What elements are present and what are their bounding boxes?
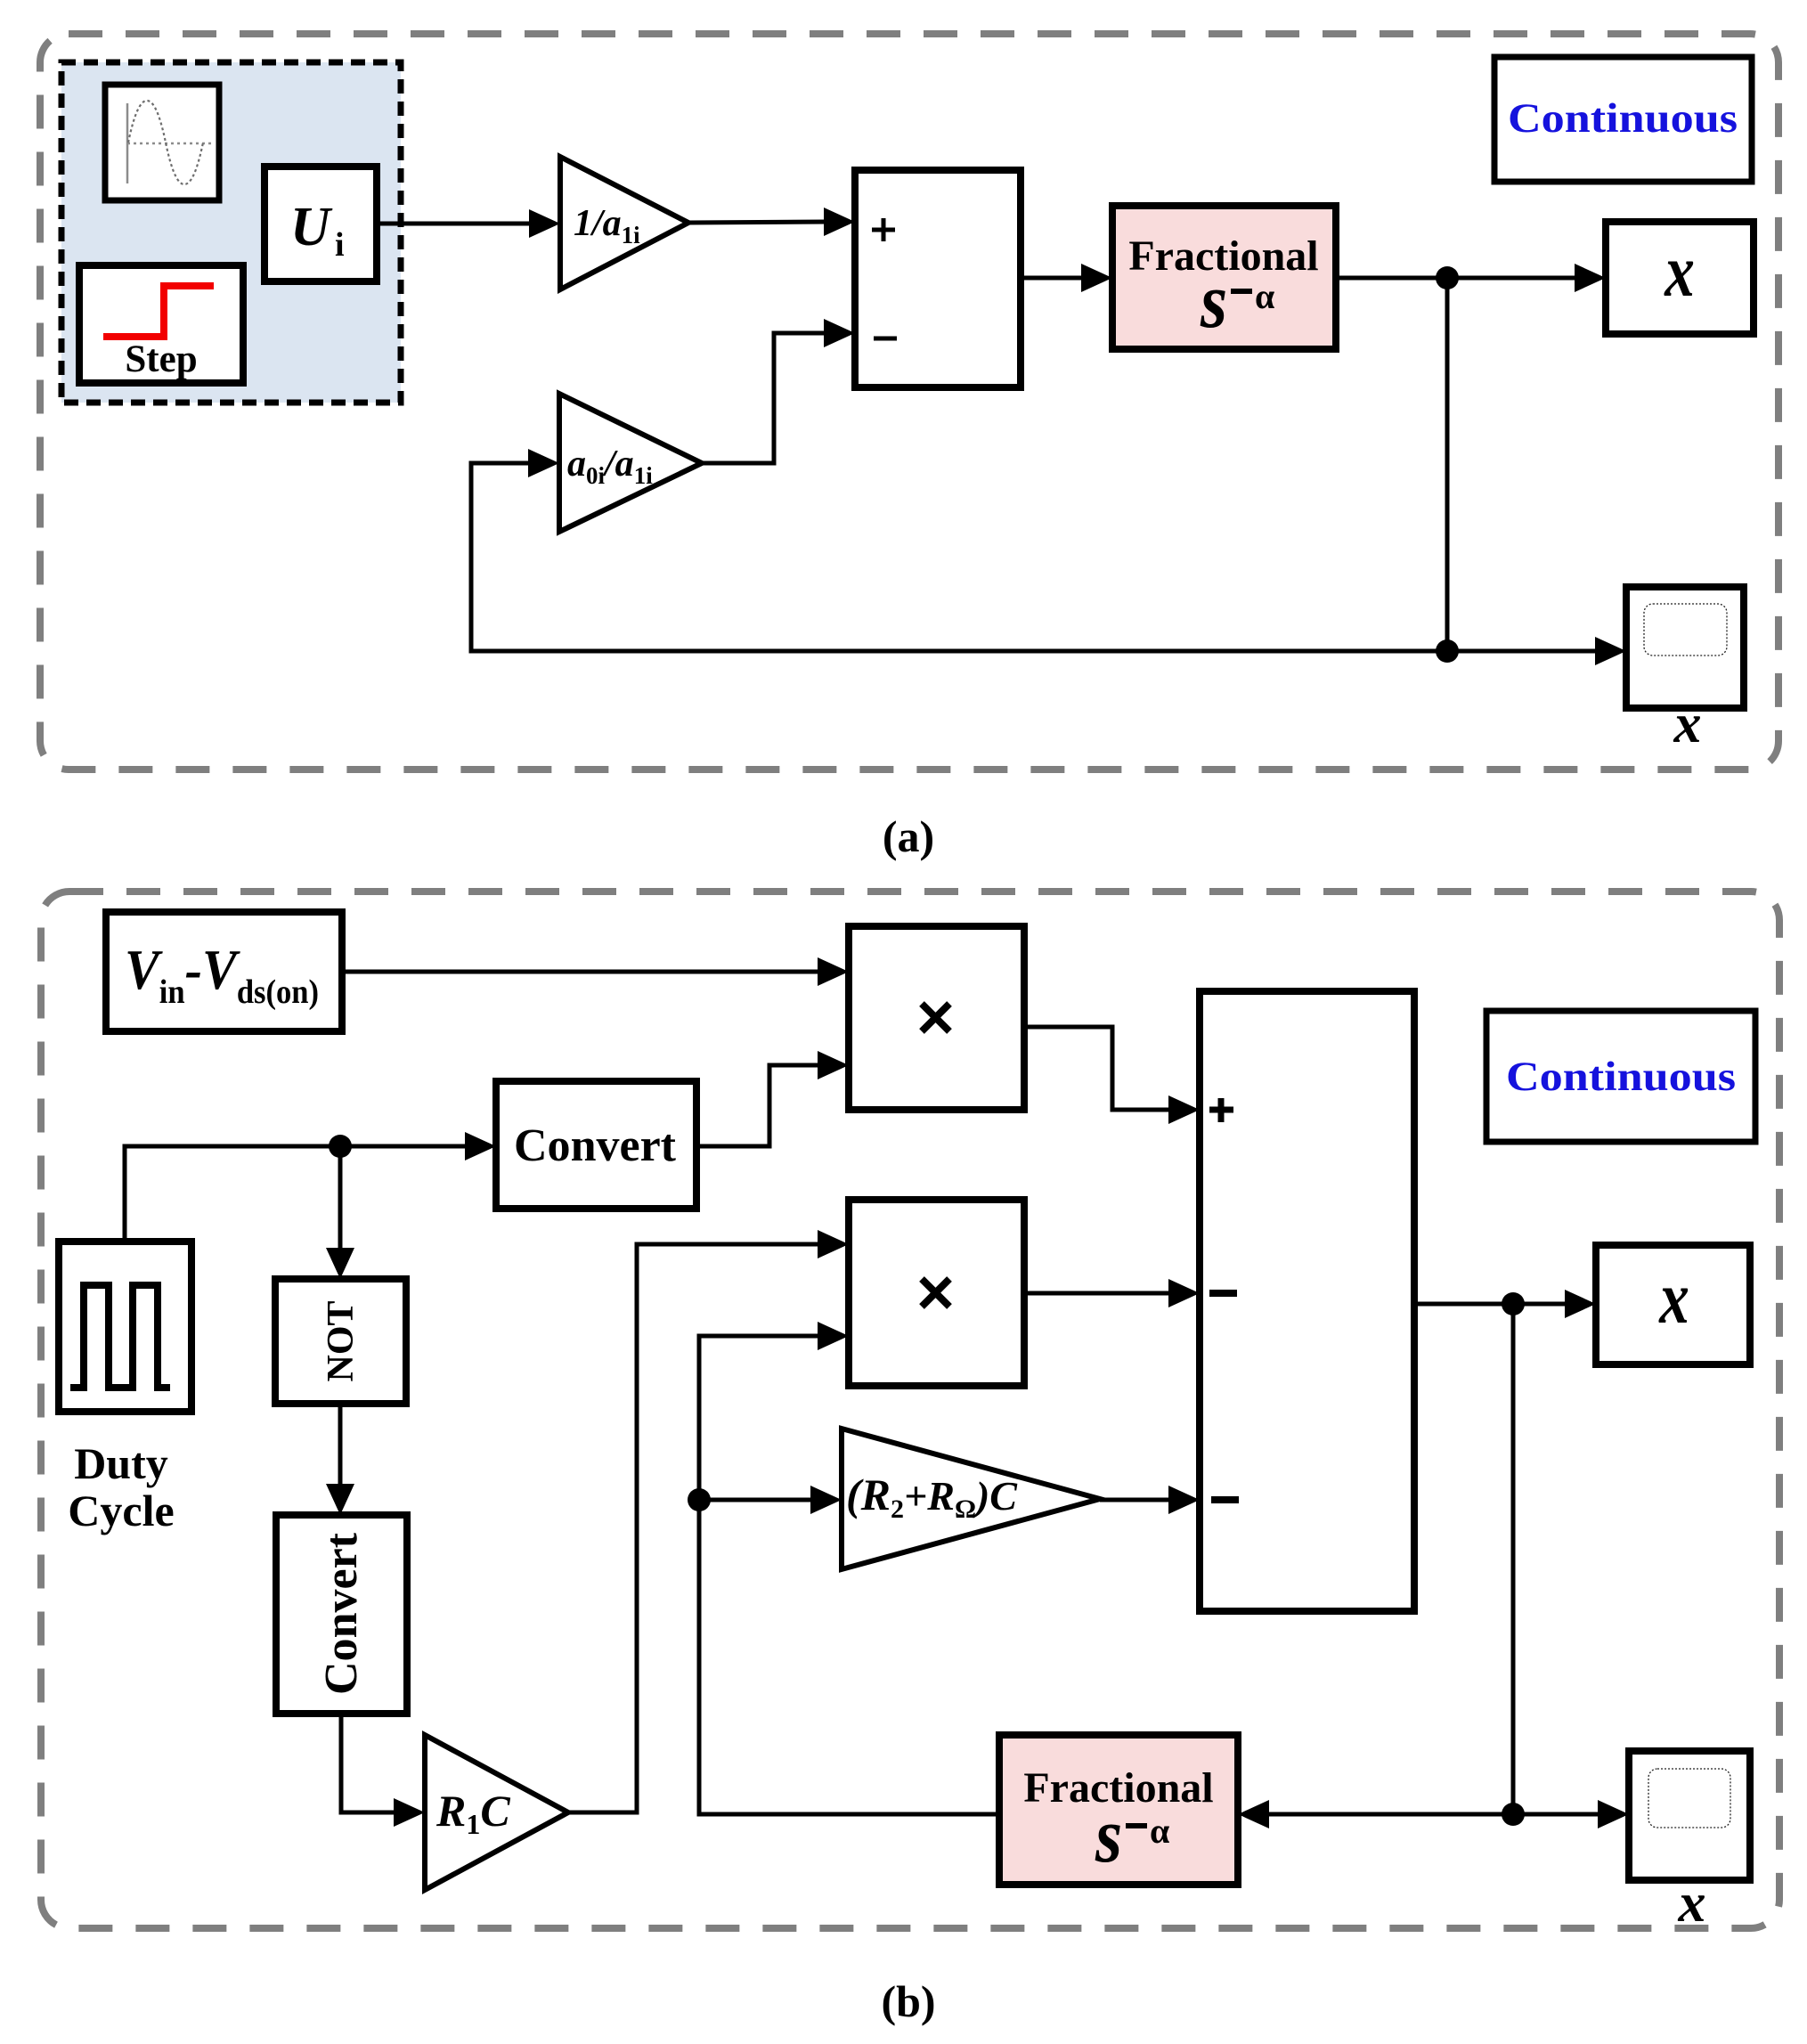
block Vin-Vds(on)	[106, 912, 342, 1031]
wire Vin to product1	[342, 957, 849, 986]
wire convert to product1	[696, 1051, 849, 1146]
wire gain 1/a1i to sum plus	[688, 208, 855, 236]
node junction b4	[1502, 1803, 1525, 1826]
svg-text:i: i	[335, 226, 345, 264]
svg-text:Cycle: Cycle	[68, 1486, 174, 1535]
svg-text:Convert: Convert	[316, 1532, 367, 1695]
wire R1C to product2 input1	[568, 1230, 849, 1812]
wire sum to x block b	[1414, 1290, 1596, 1318]
sum block a	[855, 170, 1021, 387]
svg-text:(a): (a)	[883, 811, 934, 861]
svg-text:x: x	[1673, 694, 1702, 754]
frame b	[41, 892, 1779, 1928]
sine source block	[105, 85, 219, 200]
svg-text:Continuous: Continuous	[1508, 95, 1738, 142]
wire junction to fractional b	[1238, 1800, 1513, 1828]
svg-text:(b): (b)	[881, 1976, 935, 2026]
feedback wire a	[471, 449, 1447, 651]
scope block a	[1626, 587, 1744, 754]
gain 1/a1i	[560, 157, 688, 289]
wire junction down to NOT	[326, 1146, 354, 1279]
wire junction b2 to gain R2C	[699, 1486, 842, 1514]
gain (R2+RO)C	[842, 1429, 1100, 1569]
svg-text:Continuous: Continuous	[1506, 1054, 1736, 1100]
svg-text:U: U	[290, 197, 333, 257]
svg-text:α: α	[1150, 1811, 1169, 1851]
scope block b	[1629, 1751, 1750, 1934]
svg-text:Step: Step	[125, 338, 197, 380]
node junction a2	[1436, 639, 1459, 663]
wire gain a0i/a1i to sum minus	[702, 319, 855, 463]
wire fractional to x block a	[1336, 264, 1606, 292]
svg-text:NOT: NOT	[321, 1300, 362, 1381]
fractional integrator block a	[1112, 206, 1336, 349]
product block 1	[849, 926, 1024, 1110]
output block x b	[1596, 1245, 1750, 1364]
node junction b2	[688, 1488, 711, 1511]
wire gain R2C to sum minus2	[1100, 1486, 1200, 1514]
convert block 1	[496, 1081, 696, 1209]
node junction b1	[329, 1135, 352, 1158]
wire product1 to sum plus	[1024, 1027, 1200, 1124]
sum block b	[1200, 991, 1414, 1611]
gain a0i/a1i	[559, 394, 702, 532]
wire junction to scope a	[1447, 637, 1626, 665]
pulse generator block	[59, 1242, 191, 1412]
output block x a	[1606, 222, 1754, 334]
svg-text:x: x	[1658, 1257, 1689, 1340]
svg-text:Duty: Duty	[74, 1438, 168, 1488]
svg-text:s: s	[1200, 257, 1227, 344]
svg-text:(R2+RΩ)C: (R2+RΩ)C	[846, 1470, 1018, 1524]
wire NOT to convert2	[326, 1404, 354, 1515]
wire sum to fractional a	[1021, 264, 1112, 292]
block U_i	[265, 167, 377, 281]
fractional integrator block b	[999, 1735, 1238, 1885]
convert block 2	[276, 1515, 407, 1714]
wire duty cycle to convert	[125, 1132, 496, 1242]
label Duty Cycle	[68, 1438, 174, 1535]
svg-text:Convert: Convert	[514, 1120, 677, 1171]
step source block	[79, 265, 243, 383]
wire fractional out to product2 input2	[699, 1322, 999, 1814]
svg-text:x: x	[1664, 230, 1694, 313]
continuous label box b	[1486, 1011, 1755, 1142]
continuous label box a	[1494, 57, 1752, 182]
frame a	[40, 34, 1779, 770]
NOT block	[275, 1279, 406, 1404]
wire convert2 to gain R1C	[341, 1714, 425, 1827]
wire junction down a	[1445, 278, 1450, 651]
wire Ui to gain 1/a1i	[377, 209, 560, 238]
node junction b3	[1502, 1292, 1525, 1315]
wire junction to scope b	[1513, 1800, 1629, 1828]
node junction a1	[1436, 266, 1459, 289]
input source group box	[61, 62, 401, 403]
wire junction down b	[1511, 1304, 1516, 1814]
gain R1C	[425, 1735, 568, 1890]
svg-text:x: x	[1678, 1873, 1706, 1934]
svg-text:s: s	[1095, 1791, 1122, 1878]
product block 2	[849, 1200, 1024, 1386]
svg-text:α: α	[1255, 276, 1274, 316]
wire product2 to sum minus1	[1024, 1279, 1200, 1307]
